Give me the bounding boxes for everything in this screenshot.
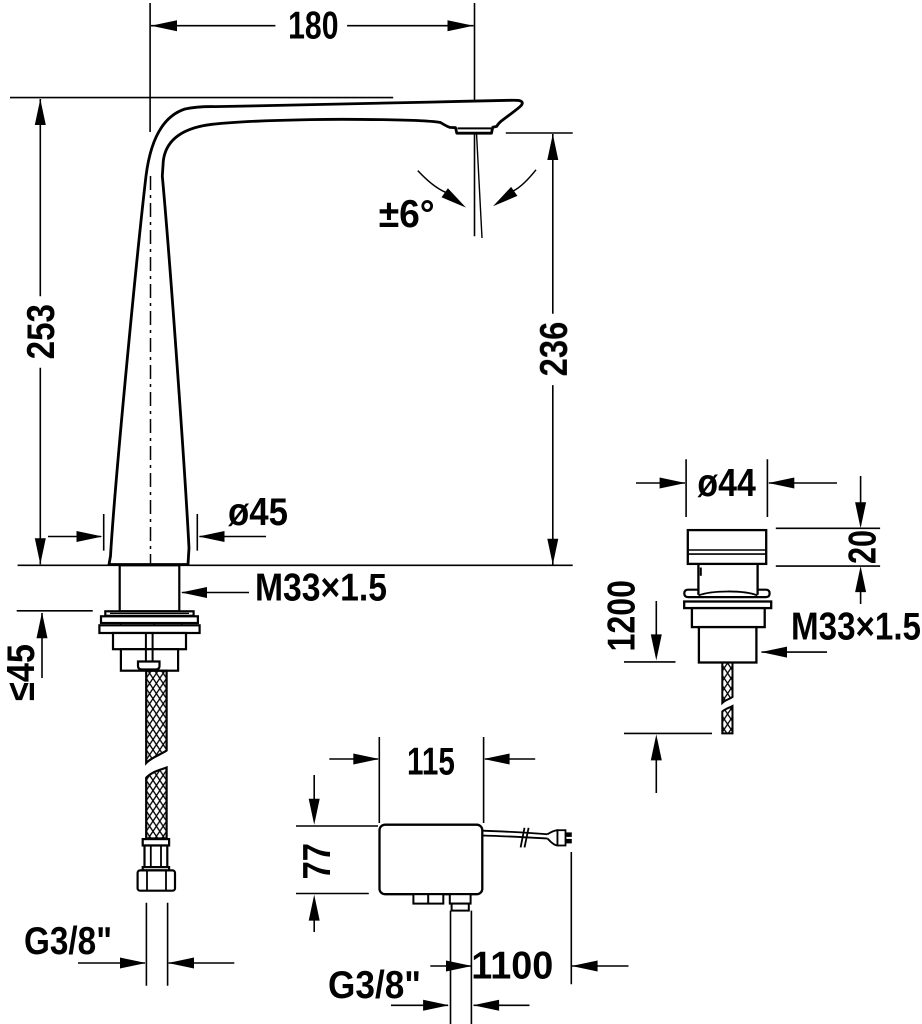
svg-text:G3/8": G3/8": [328, 964, 421, 1007]
svg-text:M33×1.5: M33×1.5: [255, 567, 387, 610]
svg-text:ø45: ø45: [228, 491, 288, 534]
svg-text:115: 115: [407, 741, 455, 784]
svg-text:M33×1.5: M33×1.5: [791, 606, 921, 649]
svg-text:20: 20: [842, 530, 885, 564]
svg-text:236: 236: [533, 322, 576, 377]
svg-text:G3/8": G3/8": [24, 920, 112, 963]
svg-text:77: 77: [296, 843, 339, 879]
svg-text:1200: 1200: [600, 580, 643, 652]
svg-text:180: 180: [288, 5, 338, 48]
svg-text:1100: 1100: [471, 945, 553, 988]
svg-text:±6°: ±6°: [379, 193, 435, 236]
svg-text:ø44: ø44: [697, 462, 756, 505]
svg-text:≤45: ≤45: [0, 644, 43, 701]
svg-text:253: 253: [20, 304, 63, 359]
